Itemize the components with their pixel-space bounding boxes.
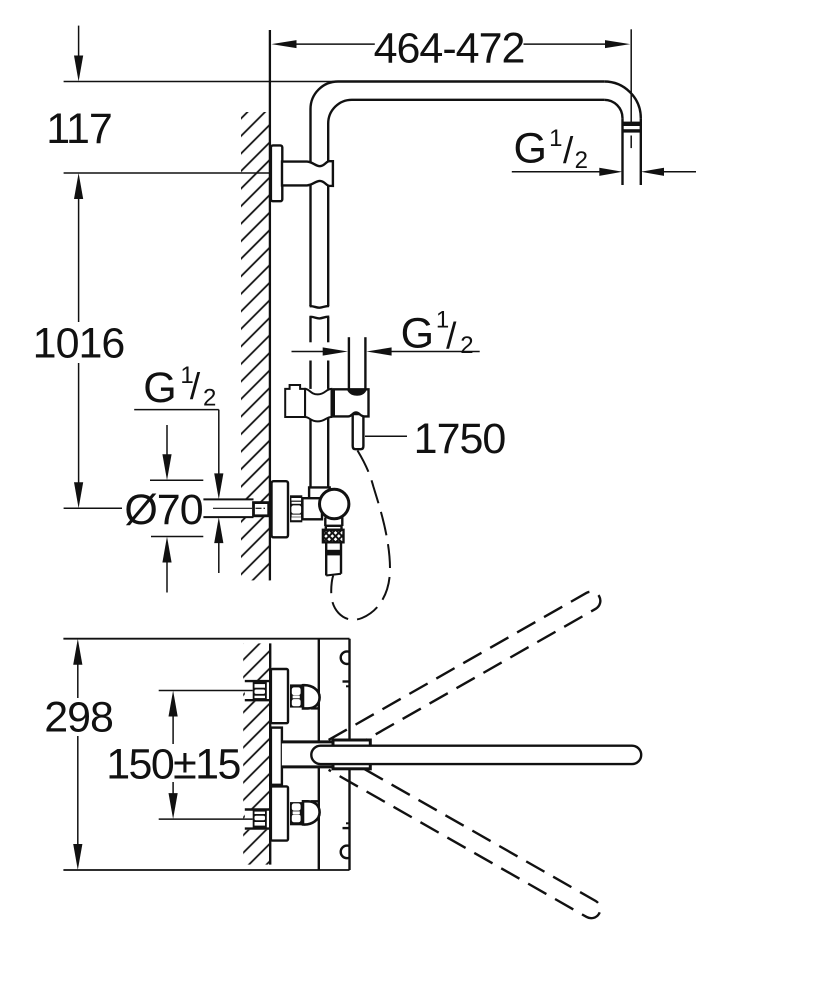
- wall face: [269, 30, 271, 580]
- dim 117 arrows: [78, 26, 80, 56]
- riser pipe right edge segments: [327, 124, 329, 162]
- shower arm top edge (+117 extension): [64, 81, 338, 83]
- svg-text:298: 298: [44, 694, 113, 742]
- dim 464-472 right extension: [630, 29, 632, 122]
- wall hatch bottom: [243, 643, 270, 864]
- svg-text:/: /: [446, 316, 457, 357]
- svg-text:/: /: [563, 130, 574, 171]
- holder crescent shadow: [347, 390, 367, 396]
- svg-text:1: 1: [549, 125, 562, 152]
- hose nut crosshatch: [323, 530, 344, 543]
- dim 464-472 line right: [524, 43, 609, 45]
- top escutcheon: [271, 669, 288, 723]
- shower holder cradle: [334, 389, 369, 416]
- bottom escutcheon: [271, 786, 288, 840]
- label 1750 leader: [365, 435, 407, 437]
- valve body: [302, 498, 322, 519]
- svg-text:2: 2: [460, 332, 473, 359]
- dim 1016 shaft: [78, 198, 80, 322]
- shower hose dashed: [331, 451, 390, 620]
- svg-text:G: G: [514, 125, 547, 173]
- valve collar: [309, 487, 330, 498]
- wall flange: [271, 145, 282, 201]
- screw holes: [341, 651, 354, 858]
- svg-text:2: 2: [203, 384, 216, 411]
- bottom supply hex: [253, 810, 267, 828]
- arm right inner bend: [604, 100, 622, 118]
- svg-text:1016: 1016: [33, 320, 125, 368]
- bottom union nut: [290, 802, 304, 825]
- supply pipe (wall union): [203, 498, 253, 500]
- hose connector: [325, 542, 327, 575]
- connection hex nut: [290, 495, 302, 522]
- shower holder pipe clamp: [305, 389, 331, 422]
- body bottom edge / dim line: [63, 869, 349, 871]
- svg-text:/: /: [190, 366, 201, 407]
- outlet neck: [324, 518, 326, 527]
- spout bracket: [333, 740, 370, 769]
- wall bracket arm: [282, 161, 333, 186]
- swivel spout dashed up: [329, 588, 604, 756]
- svg-text:1750: 1750: [414, 415, 506, 463]
- top union bulge: [303, 685, 320, 708]
- white-out supply pipe through hatch: [241, 499, 255, 518]
- arm right outer bend: [604, 82, 641, 119]
- shower arm bottom edge: [352, 99, 604, 101]
- swivel spout dashed down: [329, 754, 604, 922]
- hand shower head: [348, 337, 350, 391]
- svg-text:Ø70: Ø70: [124, 486, 202, 534]
- dim 464-472 line left: [294, 43, 375, 45]
- center escutcheon: [271, 728, 282, 785]
- bottom union bulge: [303, 801, 320, 824]
- dim 150+-15 arrows: [169, 691, 178, 717]
- spout shank: [282, 743, 333, 765]
- center dot: [283, 753, 288, 758]
- arm left inner bend: [328, 100, 352, 124]
- svg-text:G: G: [143, 364, 176, 412]
- spout: [311, 746, 641, 764]
- diverter knob circle: [320, 489, 349, 518]
- shower holder left tab: [285, 385, 305, 417]
- svg-text:2: 2: [575, 147, 588, 174]
- svg-text:117: 117: [46, 105, 112, 153]
- dim 117 bottom line: [64, 172, 270, 174]
- arm left outer bend: [311, 82, 339, 110]
- stop screws: [343, 680, 351, 682]
- dim 1016 bottom tick: [64, 507, 122, 509]
- pipe break symbol: [310, 306, 330, 308]
- svg-text:150±15: 150±15: [106, 740, 240, 788]
- svg-text:G: G: [401, 310, 434, 358]
- union square fitting: [254, 503, 269, 516]
- arm outlet down pipe: [621, 118, 623, 185]
- escutcheon: [272, 481, 289, 537]
- body top edge / dim line: [63, 638, 349, 640]
- bottom supply stub: [245, 808, 271, 810]
- white-out stubs: [245, 680, 270, 701]
- dim 150+-15 ticks: [159, 690, 253, 692]
- mixer body: [318, 639, 320, 742]
- dim O70 ticks: [150, 479, 203, 481]
- top supply stub: [245, 680, 271, 682]
- wall hatch: [241, 112, 270, 580]
- hand shower handle: [353, 414, 364, 449]
- dim 298: [73, 639, 82, 665]
- outlet nut bands: [622, 122, 642, 126]
- top union nut: [290, 684, 304, 707]
- dim O70 arrows: [166, 425, 168, 456]
- supply centerline: [213, 507, 252, 509]
- outlet washer: [326, 526, 342, 530]
- riser pipe left edge segments: [309, 109, 311, 162]
- wall face bottom view: [269, 643, 271, 864]
- svg-text:464-472: 464-472: [374, 24, 525, 72]
- holder divider: [331, 389, 334, 417]
- top supply hex: [253, 682, 267, 700]
